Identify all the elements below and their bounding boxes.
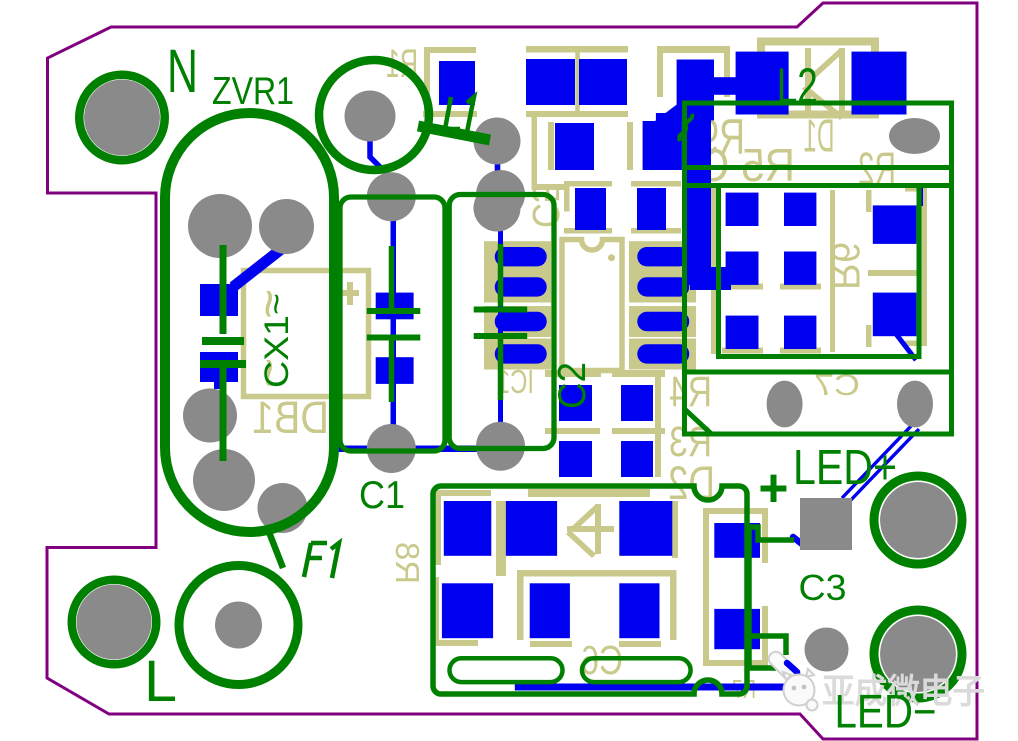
- fuse F1 ring: [179, 566, 298, 685]
- capacitor C2 plate 2: [474, 333, 528, 339]
- pad T3: [852, 52, 907, 115]
- hole LED- stub: [805, 628, 849, 672]
- pad C1 lower: [376, 357, 414, 384]
- hole LED- annular ring: [874, 610, 962, 698]
- hole N white ring: [83, 79, 161, 157]
- capacitor C2 lead top: [498, 244, 504, 306]
- capacitor C2 grid mid bars: [545, 428, 600, 434]
- wire right vertical: [749, 524, 776, 668]
- watermark mascot bubble: [807, 700, 818, 711]
- wire diagonal L2 bottom right: [896, 334, 916, 360]
- DB1 plus mark: [341, 282, 359, 305]
- wire LED+ pad stub: [793, 537, 802, 544]
- capacitor C2 grid pads: [559, 385, 592, 421]
- inductor L2 grid pads: [726, 193, 759, 226]
- hole LED+ annular ring: [874, 476, 962, 564]
- svg-text:LED+: LED+: [793, 441, 897, 495]
- hole LED+ drill: [880, 482, 956, 558]
- hole LED- drill: [880, 616, 956, 692]
- bracket pad T1: [657, 46, 730, 97]
- hole C2 bottom: [476, 422, 525, 471]
- inductor L2 grid khaki right bar: [830, 190, 835, 352]
- wire blue stub over flag: [787, 663, 797, 672]
- hole C1 left top: [367, 172, 416, 221]
- IC U3 body outline: [562, 240, 622, 371]
- IC U3 right pads: [637, 247, 689, 266]
- U2 khaki pad brackets row1: [433, 490, 491, 565]
- wire L1 spoke: [418, 126, 490, 140]
- wire C2 vertical: [498, 216, 503, 446]
- svg-text:R4: R4: [669, 368, 712, 416]
- diode D1 bottom bracket: [757, 101, 879, 119]
- label L1: [445, 97, 474, 132]
- pad S2: [637, 188, 666, 230]
- wire stub L2 top right: [917, 188, 923, 206]
- pad C8 right: [579, 59, 627, 105]
- inductor L2 divider line 2: [685, 183, 952, 188]
- bracket pad T1 right leg: [724, 53, 730, 97]
- capacitor C5 bracket: [532, 117, 567, 190]
- pad M2 tab: [656, 113, 671, 123]
- capacitor C2 plate 1: [474, 307, 528, 313]
- svg-text:C5: C5: [524, 184, 566, 228]
- hole L white ring: [76, 584, 153, 661]
- watermark mascot eyes: [792, 686, 797, 691]
- diode D1 triangle strokes: [802, 48, 844, 120]
- IC U3 right khaki pads: [629, 241, 696, 272]
- pad M1: [555, 123, 594, 170]
- wire squiggle near L2: [679, 114, 692, 141]
- capacitor divider bar: [575, 52, 580, 112]
- hole LED- white ring: [879, 615, 957, 693]
- U2 pads row1: [444, 501, 492, 556]
- hole C7 left oval: [767, 381, 803, 428]
- svg-text:CX1~: CX1~: [258, 293, 296, 388]
- svg-text:R6: R6: [823, 242, 867, 290]
- inductor L2 inner box: [719, 186, 920, 357]
- U2 slot pill left: [450, 658, 563, 682]
- resistor R7 pads: [714, 523, 760, 558]
- pad S1: [575, 188, 606, 230]
- capacitor bracket over pads C8 top: [526, 46, 628, 53]
- hole N annular ring: [79, 75, 165, 161]
- svg-text:ZVR1: ZVR1: [212, 70, 294, 113]
- inductor L2 grid khaki left bar: [711, 188, 717, 354]
- pad C1 upper: [376, 293, 414, 320]
- wire right horizontal lower: [749, 636, 786, 655]
- hole C2 top: [476, 170, 525, 219]
- hole L1 pin lower: [474, 185, 521, 232]
- wire bend into L2 grid: [690, 267, 731, 290]
- svg-text:C2: C2: [551, 362, 594, 409]
- wire from L1 center pad: [370, 140, 389, 196]
- resistor R7 bracket: [703, 508, 768, 666]
- hole ZVR1 pin E: [258, 483, 308, 533]
- inductor L2 outer box: [685, 103, 952, 434]
- U2 slot pill right: [582, 658, 691, 682]
- varistor ZVR1 capsule: [165, 113, 334, 532]
- pad C8 left: [526, 59, 575, 105]
- bracket pads S1 S2 top: [564, 181, 612, 212]
- resistor R1 bracket: [424, 47, 476, 116]
- wire ZVR1 to F1: [267, 527, 283, 568]
- hole C7 right oval: [897, 381, 933, 428]
- pad ZVR1 lower: [200, 352, 238, 382]
- pad R1: [439, 61, 475, 105]
- wire C1 left vertical: [391, 216, 397, 434]
- diode D2 symbol: [595, 504, 601, 554]
- svg-text:DB1: DB1: [252, 392, 329, 443]
- varistor ZVR1 plate 2: [200, 360, 246, 368]
- pad T1: [677, 60, 714, 121]
- capacitor C1 plate 1: [367, 308, 421, 314]
- inductor L2 right pads: [873, 205, 917, 244]
- IC U3 left pads: [495, 247, 547, 266]
- inductor L2 grid khaki row bars: [722, 284, 763, 290]
- capacitor C1 plate 2: [367, 335, 421, 341]
- svg-text:L: L: [144, 649, 177, 714]
- bracket pads M1 M2: [548, 122, 554, 170]
- pad ZVR1 upper: [200, 284, 238, 316]
- IC U3 pin1 dot: [608, 254, 615, 261]
- hole LED+ white ring: [879, 481, 957, 559]
- inductor L1 ring: [319, 60, 429, 170]
- inductor L2 divider line 1: [685, 165, 952, 170]
- inductor L2 divider line 3: [685, 370, 952, 375]
- hole F1 center: [215, 602, 262, 649]
- svg-text:N: N: [167, 37, 198, 105]
- svg-text:D1: D1: [804, 110, 835, 162]
- wire right step to LED+: [749, 527, 794, 540]
- U2 khaki pad brackets row2: [517, 570, 676, 577]
- varistor ZVR1 lead bottom: [220, 368, 227, 461]
- hole L1 center: [345, 91, 396, 142]
- hole ZVR1 pin B: [259, 199, 314, 254]
- svg-text:LED−: LED−: [835, 685, 937, 738]
- label F1: [304, 543, 339, 578]
- wire L1 pad stub: [495, 163, 501, 173]
- wire L2 corner diagonal: [685, 409, 712, 434]
- svg-text:L2: L2: [777, 60, 818, 114]
- capacitor C1 lead top: [389, 246, 395, 308]
- U2 box outline with notches: [433, 486, 747, 694]
- capacitor C1 lead bottom: [389, 340, 395, 402]
- pad T2: [736, 52, 789, 115]
- capacitor C2 grid right bar: [655, 376, 661, 477]
- wire T1-T2 bridge: [710, 77, 737, 95]
- svg-text:C3: C3: [799, 567, 847, 608]
- wire C1 bottom connector: [338, 446, 502, 453]
- capacitor CX1 khaki box: [244, 271, 369, 397]
- hole D1 oval: [889, 118, 940, 154]
- wire ZVR1 diagonal: [233, 247, 284, 287]
- wire diagonal M2 to T1: [655, 99, 694, 134]
- hole L1 pin upper: [474, 118, 521, 165]
- capacitor C2 lead bottom: [498, 339, 504, 401]
- capacitor bracket under pads C8 bottom: [526, 111, 628, 117]
- watermark mascot ears: [783, 669, 814, 680]
- hole C1 left bottom: [367, 424, 416, 473]
- wire LED+ diagonal pair: [842, 424, 919, 503]
- hole ZVR1 pin A: [188, 194, 252, 258]
- hole N drill: [84, 80, 160, 156]
- svg-text:R8: R8: [389, 542, 426, 584]
- symbol plus near LED+: [761, 475, 787, 502]
- wire wide vertical under L2: [687, 118, 712, 285]
- hole L drill: [77, 585, 152, 660]
- watermark mascot head: [784, 675, 815, 706]
- watermark flag: [766, 649, 804, 687]
- hole ZVR1 pin D: [193, 449, 255, 511]
- pad ZVR1 tail: [214, 380, 223, 389]
- resistor R1 bottom bar: [423, 111, 477, 117]
- hole L annular ring: [72, 580, 157, 665]
- capacitor C1 left box: [340, 197, 445, 451]
- IC U3 left khaki pads: [484, 241, 551, 272]
- capacitor C2 grid top bars: [545, 370, 601, 377]
- pad LED+ square: [800, 498, 852, 550]
- hole ZVR1 pin C: [183, 389, 237, 443]
- pad M2: [643, 121, 682, 170]
- wire bottom trace: [515, 684, 788, 691]
- bracket right pads of L2: [905, 186, 927, 346]
- diode D1 symbol: [805, 48, 845, 116]
- diode D1 top bracket: [757, 38, 879, 55]
- varistor ZVR1 lead top: [220, 245, 227, 334]
- varistor ZVR1 plate 1: [202, 337, 244, 345]
- svg-text:C1: C1: [359, 474, 405, 517]
- U2 pads row2: [442, 583, 493, 638]
- capacitor C2 box: [449, 195, 554, 449]
